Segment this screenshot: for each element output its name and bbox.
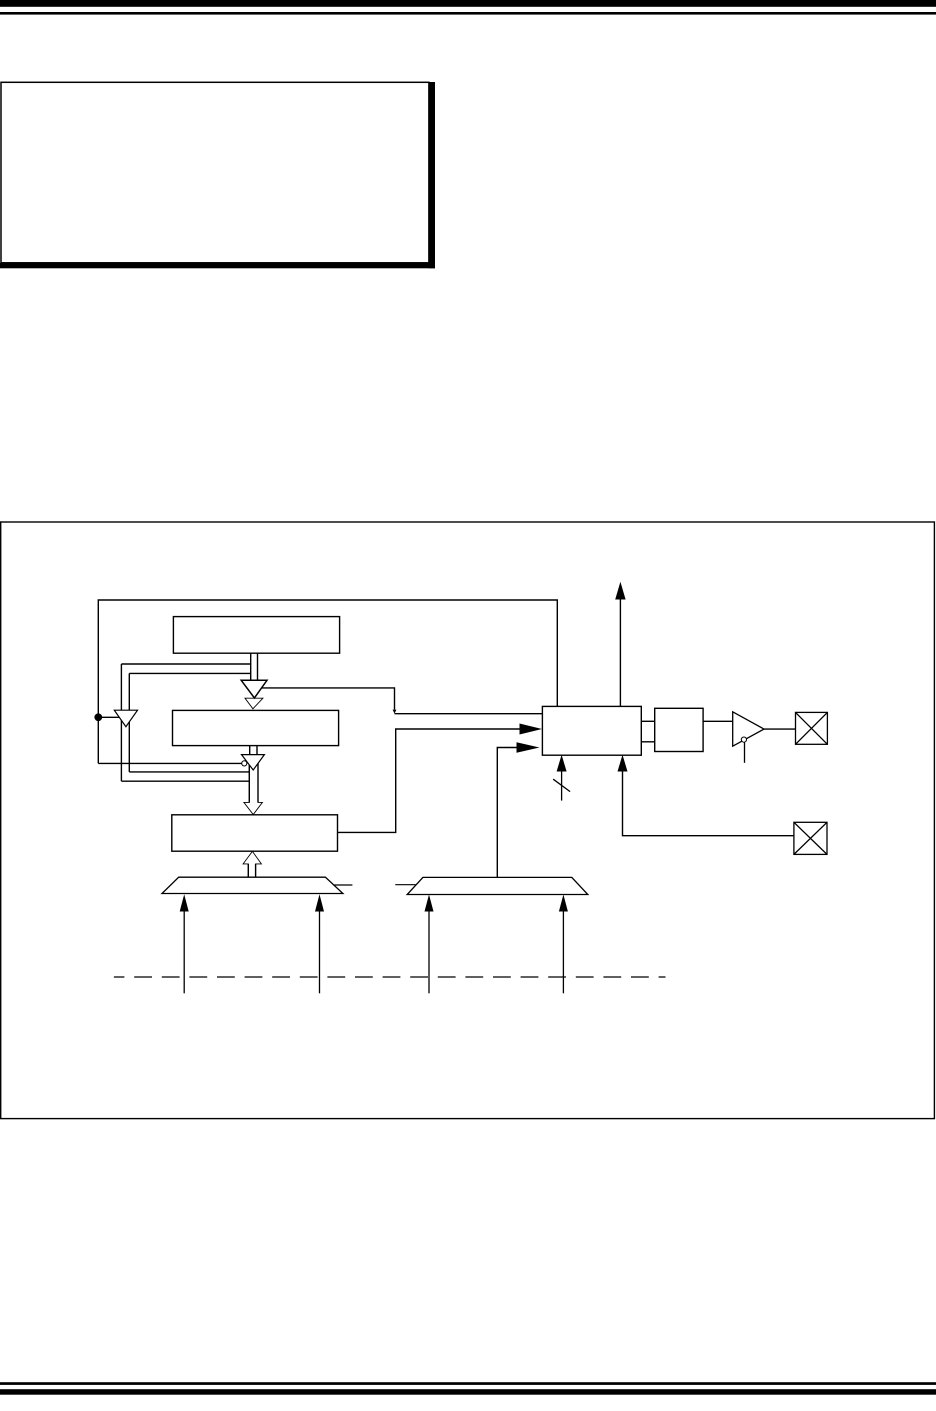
data bus trapezoid left — [162, 877, 343, 893]
node junction dot — [94, 713, 102, 721]
wire: into sync box upper input — [395, 713, 543, 715]
bus arrow A1 big head — [241, 680, 267, 698]
pad X1 crossed box — [796, 712, 828, 744]
arrow up into data bus right (1) — [428, 909, 430, 993]
arrow up into data bus left (1) — [183, 909, 185, 993]
wire: enable line below bubble — [744, 742, 746, 762]
bus width slash — [553, 779, 570, 791]
wire: line B to bus arrow A3 — [129, 771, 249, 773]
sync box — [542, 706, 641, 755]
arrow up out of sync box (overflow flag) — [619, 599, 621, 707]
arrowhead into sync box upper — [520, 724, 543, 735]
wire: H2 lower loop horizontal — [129, 672, 250, 674]
wire: line C to bus arrow A3 — [121, 780, 249, 782]
wire: top feedback wire into sync box — [98, 600, 557, 763]
prescaler box — [655, 708, 703, 751]
oscillator buffer triangle U1 — [733, 712, 764, 746]
page top thin rule — [0, 12, 936, 15]
arrow up into data bus right (2) — [562, 909, 564, 993]
wire: buffer to pad X1 — [764, 728, 796, 730]
latch triangle T1 — [114, 710, 137, 727]
connector sync box to prescaler upper — [641, 720, 654, 722]
wire: prescaler to oscillator buffer — [703, 720, 733, 722]
arrow up into sync box bottom with slash — [561, 771, 563, 801]
latch triangle T2 — [242, 755, 265, 770]
note box right shadow — [429, 82, 435, 268]
arrowhead into sync box lower — [517, 742, 540, 753]
data bus right tail — [395, 884, 415, 886]
wire: L2 outer loop vertical — [120, 664, 122, 781]
page bottom thin rule — [0, 1382, 936, 1385]
wire: data bus right up to sync box input — [497, 748, 516, 878]
bubble on latch T2 — [242, 761, 247, 766]
wire: from pad X2 up into sync box bottom — [623, 771, 794, 836]
data bus trapezoid right — [407, 877, 588, 894]
dashed boundary line — [114, 976, 666, 978]
bus arrow A4 shaft overdraw — [248, 864, 255, 877]
wire: latch enable line A to bubble — [98, 762, 241, 764]
data bus left tail — [334, 884, 353, 886]
wire: from A1 to corner — [262, 688, 395, 710]
wire: H1 upper loop horizontal — [121, 663, 250, 665]
bubble on buffer enable — [741, 737, 746, 742]
note box — [1, 82, 429, 262]
pad X2 crossed box — [794, 822, 827, 854]
arrow up into data bus left (2) — [319, 909, 321, 993]
connector sync box to prescaler lower — [641, 741, 654, 743]
wire: stub from junction to latch T1 — [98, 716, 120, 718]
bus arrow A3 (down into register 3) — [244, 761, 263, 815]
page top thick rule — [0, 0, 936, 7]
bus arrow A3 shaft overdraw — [249, 761, 258, 802]
figure frame — [1, 522, 935, 1119]
bus arrow A2 small chevron — [245, 698, 263, 709]
wire: L3 inner loop vertical — [128, 673, 130, 772]
bus arrow A4 (up from data bus into register 3) — [243, 851, 261, 877]
note box bottom shadow — [0, 263, 435, 268]
page bottom thick rule — [0, 1389, 936, 1395]
register box 3 (timer low byte) — [172, 815, 338, 851]
wire: register 3 to sync box lower path — [338, 729, 520, 832]
bus shaft below register box 2 — [250, 746, 257, 755]
register box 1 (buffer register high byte) — [173, 617, 339, 654]
small arrowhead at corner — [393, 710, 397, 714]
bus shaft below register box 1 — [251, 653, 258, 680]
register box 2 (timer high byte) — [173, 710, 339, 745]
